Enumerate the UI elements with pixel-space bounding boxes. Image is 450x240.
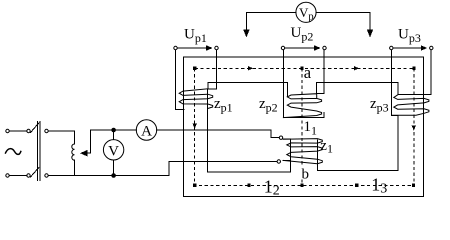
arrow Up2: [286, 47, 314, 49]
dashed flux top line: [195, 67, 414, 69]
voltmeter V: [103, 140, 123, 160]
dashed flux left leg: [194, 68, 196, 185]
flux corner mark bottom-right: [412, 184, 415, 187]
z1 bottom terminal: [277, 160, 280, 163]
wire: [113, 160, 115, 176]
arrow Up1: [178, 47, 206, 49]
wire Up2 left lead: [283, 50, 324, 117]
winding zp1: [179, 89, 213, 109]
wire Up3 right lead: [430, 50, 432, 94]
flux arrow top line 2: [354, 66, 359, 70]
flux arrow top line 1: [248, 66, 253, 70]
svg-text:A: A: [141, 123, 152, 139]
winding zp2: [283, 94, 321, 118]
flux corner mark top-left: [193, 67, 196, 70]
wire Up3 left lead: [391, 50, 398, 115]
winding z1: [283, 139, 322, 164]
junction node: [111, 128, 116, 133]
terminals Up1: [174, 46, 177, 49]
enclosing wire rectangle: [183, 57, 423, 196]
terminals Up3: [390, 46, 393, 49]
wire: [48, 130, 74, 132]
wire zp1 right rail down to secondary link: [208, 89, 291, 172]
flux mark bottom line 2: [355, 184, 358, 187]
wire chain zp2 to zp3: [324, 83, 398, 95]
z1 top terminal: [279, 136, 282, 139]
zp1 entry loop rectangle: [208, 83, 216, 89]
flux corner mark bottom-left: [193, 184, 196, 187]
wire ammeter to z1 top terminal: [157, 130, 279, 138]
AC source tilde: [6, 149, 21, 155]
wire vp left: [246, 12, 296, 31]
wire Up1 left lead: [176, 50, 184, 109]
bottom bus wire: [75, 162, 277, 176]
z1 right rail to link: [317, 115, 398, 170]
wire Up2 right lead: [323, 50, 325, 82]
svg-text:b: b: [302, 167, 310, 183]
switch pole circles: [45, 129, 48, 132]
switch S blade bottom: [31, 168, 39, 178]
svg-text:z1: z1: [320, 138, 333, 156]
wire Up1 right lead: [215, 50, 217, 88]
flux corner mark top-right: [412, 67, 415, 70]
wire chain zp1 to zp2: [216, 83, 287, 96]
z1 left rail: [283, 139, 291, 160]
switch coupling bars: [37, 122, 39, 181]
flux junction mark node a: [300, 67, 303, 70]
svg-text:V: V: [108, 143, 119, 159]
zp2 entry loop rectangle: [317, 83, 325, 94]
arrow Up3: [394, 47, 421, 49]
source terminal circles: [6, 129, 9, 132]
dashed flux mid leg: [301, 68, 303, 167]
wire: [113, 130, 115, 140]
dashed flux right leg: [413, 68, 415, 185]
dashed flux mid bottom stub: [301, 180, 303, 186]
wire: [9, 130, 27, 132]
flux arrow left leg down: [193, 124, 197, 129]
flux mark below node b: [300, 184, 303, 187]
winding zp3: [392, 95, 429, 116]
terminals Up2: [281, 46, 284, 49]
voltmeter Vp: [296, 2, 316, 22]
variac wiper arrow: [87, 130, 137, 153]
flux mark bottom line 1: [247, 184, 250, 187]
zp3 top link: [398, 94, 431, 96]
dashed flux left bottom stub: [193, 184, 414, 186]
flux arrow right leg down: [412, 126, 416, 131]
probe arrow left: [243, 30, 249, 38]
probe arrow right: [367, 30, 373, 38]
junction node: [111, 173, 116, 178]
autotransformer (variac) winding: [74, 131, 76, 144]
wire vp right: [316, 12, 370, 31]
switch S blade top: [31, 123, 39, 133]
svg-text:a: a: [304, 63, 312, 82]
ammeter A: [136, 120, 156, 140]
